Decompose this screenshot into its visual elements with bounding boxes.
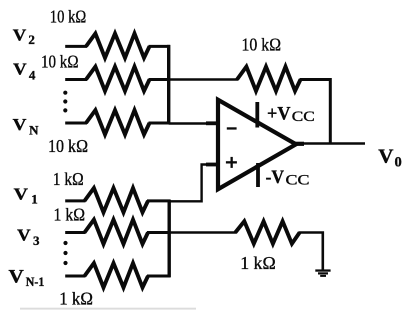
wire V2 input stub xyxy=(65,45,87,48)
wire V1 input stub xyxy=(65,199,85,202)
resistor 10 kOhm (V2 branch) xyxy=(86,34,150,58)
svg-text:1 kΩ: 1 kΩ xyxy=(54,205,86,225)
svg-text:10 kΩ: 10 kΩ xyxy=(242,35,282,55)
wire non-inverting elbow xyxy=(168,165,207,202)
node V0 label xyxy=(378,146,401,171)
op-amp plus sign xyxy=(226,157,237,168)
svg-text:N: N xyxy=(29,122,39,137)
svg-text:10 kΩ: 10 kΩ xyxy=(41,52,79,72)
resistor 1 kOhm (V3 branch) xyxy=(85,220,149,244)
wire V2 resistor tail to bus xyxy=(149,45,171,48)
wire bus to feedback resistor xyxy=(169,78,238,80)
wire ground resistor to ground xyxy=(299,233,323,270)
+VCC supply stub xyxy=(255,102,259,128)
scan artifact bottom xyxy=(20,308,196,310)
svg-text:V: V xyxy=(13,60,27,79)
node VN-1 label xyxy=(9,266,45,289)
wire output stub at apex xyxy=(294,142,304,146)
wire non-inverting bus (vertical) xyxy=(167,200,170,278)
svg-text:-V: -V xyxy=(266,167,285,188)
-VCC supply stub xyxy=(256,163,260,187)
svg-text:4: 4 xyxy=(29,68,36,83)
+VCC label xyxy=(267,103,315,125)
wire feedback resistor to output branch xyxy=(300,80,331,144)
ground symbol xyxy=(315,269,330,277)
resistor 10 kOhm (V4 branch) xyxy=(86,67,150,91)
resistor 1 kOhm (VN-1 branch) xyxy=(85,263,149,287)
svg-text:10 kΩ: 10 kΩ xyxy=(48,136,88,156)
svg-text:2: 2 xyxy=(28,32,35,47)
svg-text:1 kΩ: 1 kΩ xyxy=(59,289,93,309)
resistor 10 kOhm (VN branch) xyxy=(86,110,150,134)
svg-text:V: V xyxy=(9,266,25,287)
resistor 1 kOhm (V1 branch) xyxy=(85,188,149,212)
resistor 1 kOhm (to ground) xyxy=(235,221,299,243)
ellipsis dots lower xyxy=(63,241,67,265)
wire V3 resistor tail to bus xyxy=(147,231,171,234)
svg-text:1 kΩ: 1 kΩ xyxy=(240,253,276,273)
svg-text:1 kΩ: 1 kΩ xyxy=(53,169,84,189)
wire VN-1 resistor tail to bus xyxy=(147,275,171,278)
wire non-inverting input stub xyxy=(206,163,218,167)
svg-text:0: 0 xyxy=(395,155,402,171)
svg-text:V: V xyxy=(14,184,29,203)
node V1 label xyxy=(14,184,38,206)
svg-text:V: V xyxy=(13,115,28,134)
wire inverting input stub xyxy=(206,121,218,125)
svg-text:V: V xyxy=(378,146,394,168)
op-amp minus sign xyxy=(227,127,237,129)
wire VN-1 input stub xyxy=(65,275,85,278)
wire V4 input stub xyxy=(65,78,87,81)
op-amp U1 triangle xyxy=(218,100,296,189)
wire bus to inverting input xyxy=(169,122,208,124)
svg-text:V: V xyxy=(13,25,27,44)
wire V4 resistor tail to bus xyxy=(149,78,171,81)
wire inverting bus (vertical) xyxy=(167,45,170,124)
-VCC label xyxy=(266,167,310,189)
wire V1 resistor tail to bus xyxy=(147,199,171,202)
svg-text:CC: CC xyxy=(292,109,315,125)
svg-text:1: 1 xyxy=(31,192,38,207)
wire bus to ground resistor xyxy=(169,231,236,233)
wire VN resistor tail to bus xyxy=(149,122,171,125)
svg-text:N-1: N-1 xyxy=(26,274,45,289)
ellipsis dots upper xyxy=(63,91,67,113)
node V2 label xyxy=(13,25,35,47)
wire VN input stub xyxy=(65,122,87,125)
resistor 10 kOhm (feedback) xyxy=(237,67,301,91)
svg-text:CC: CC xyxy=(286,173,310,189)
svg-text:10 kΩ: 10 kΩ xyxy=(50,7,87,27)
node V3 label xyxy=(17,226,40,249)
wire V3 input stub xyxy=(65,231,85,234)
wire output xyxy=(296,142,365,144)
node V4 label xyxy=(13,60,36,83)
svg-text:V: V xyxy=(17,226,31,245)
node VN label xyxy=(13,115,39,137)
svg-text:+V: +V xyxy=(267,103,291,124)
svg-text:3: 3 xyxy=(33,233,40,248)
